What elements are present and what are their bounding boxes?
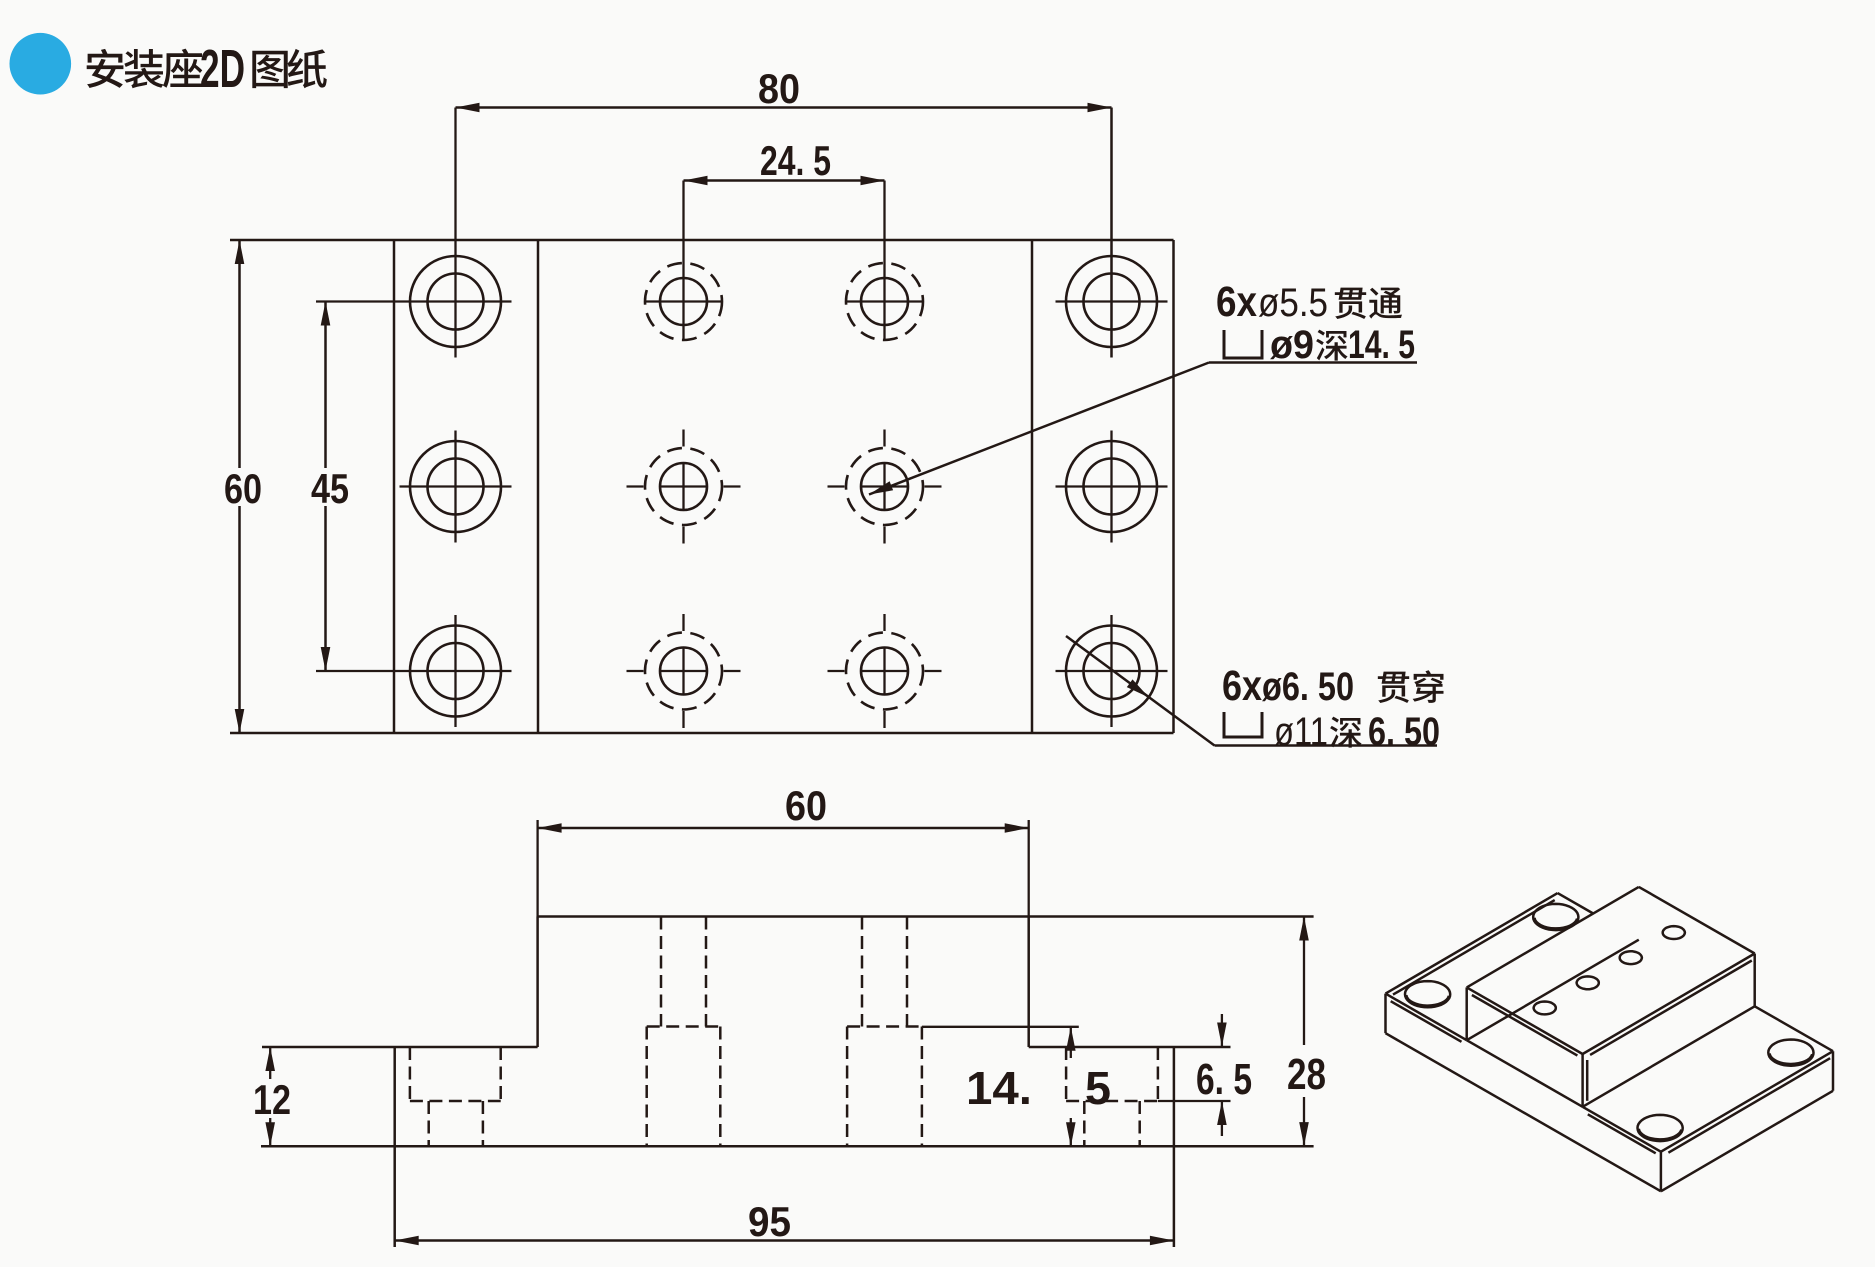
section hidden hole column 2 (ø5.5 / cb ø9) xyxy=(861,917,864,1027)
svg-text:ø5.5: ø5.5 xyxy=(1258,281,1328,325)
tapped/through hole M21 (6x ø5.5, cb ø9 dashed) xyxy=(861,278,908,325)
isometric view: corner counterbore holes xyxy=(1405,981,1450,1007)
isometric view: block top small holes xyxy=(1534,1002,1556,1015)
section right wing counterbore (ø11 deep 6.5 / ø6.5) xyxy=(1065,1047,1068,1101)
dimension 28 (total height) xyxy=(1303,917,1305,1046)
title bullet icon xyxy=(10,33,72,95)
svg-text:60: 60 xyxy=(224,465,262,512)
svg-text:6. 50: 6. 50 xyxy=(1368,710,1440,754)
isometric view: base top rim (with chamfer double lines) xyxy=(1386,994,1467,1041)
svg-text:5: 5 xyxy=(1085,1062,1111,1114)
svg-text:24. 5: 24. 5 xyxy=(760,137,831,184)
svg-text:80: 80 xyxy=(758,65,800,112)
section left wing counterbore (ø11 deep 6.5 / ø6.5) xyxy=(409,1047,412,1101)
svg-text:ø11: ø11 xyxy=(1274,710,1328,754)
dimension 95 (section base width) xyxy=(395,1239,1174,1242)
dimension 60 (section block width) xyxy=(536,820,538,917)
svg-text:12: 12 xyxy=(253,1076,291,1123)
callout 2 text line 2: ⌴ø11深6.50 xyxy=(1224,712,1262,737)
counterbore hole L3 (6x ø6.50, cb ø11) xyxy=(410,626,501,717)
svg-text:45: 45 xyxy=(311,465,349,512)
svg-text:6x: 6x xyxy=(1222,662,1262,710)
svg-text:14.: 14. xyxy=(966,1062,1032,1114)
counterbore hole R1 (6x ø6.50, cb ø11) xyxy=(1066,256,1157,347)
tapped/through hole M11 (6x ø5.5, cb ø9 dashed) xyxy=(660,278,707,325)
counterbore hole L1 (6x ø6.50, cb ø11) xyxy=(410,256,501,347)
dimension 14.5 (cb depth) xyxy=(922,1026,1079,1028)
svg-text:28: 28 xyxy=(1287,1050,1326,1099)
svg-text:60: 60 xyxy=(785,782,827,829)
top view divider lines xyxy=(393,240,396,733)
isometric view: block top edges xyxy=(1467,987,1583,1054)
svg-text:6x: 6x xyxy=(1216,278,1257,326)
dimension 24.5 xyxy=(684,179,885,182)
isometric view: base bottom edges xyxy=(1386,1033,1661,1191)
isometric view: block vertical edges xyxy=(1465,987,1468,1040)
leader callout 1 (6x ø5.5 through, cb ø9 deep 14.5) xyxy=(869,363,1209,495)
tapped/through hole M22 (6x ø5.5, cb ø9 dashed) xyxy=(861,463,908,510)
dimension 45 (hole rows) xyxy=(324,302,327,469)
section hidden hole column 1 (ø5.5 / cb ø9) xyxy=(660,917,663,1027)
svg-text:2D: 2D xyxy=(200,39,245,99)
dimension 6.5 (cb depth right) xyxy=(1158,1100,1231,1102)
svg-text:ø6. 50: ø6. 50 xyxy=(1262,665,1354,709)
counterbore hole R3 (6x ø6.50, cb ø11) xyxy=(1066,626,1157,717)
svg-text:14. 5: 14. 5 xyxy=(1348,323,1415,367)
tapped/through hole M12 (6x ø5.5, cb ø9 dashed) xyxy=(660,463,707,510)
top view plate outline xyxy=(230,239,1174,242)
isometric view: base vertical edges xyxy=(1384,994,1387,1034)
svg-text:ø9: ø9 xyxy=(1270,323,1314,367)
dimension 80 (top) xyxy=(456,106,1112,109)
dimension 60 (left, plate height) xyxy=(235,240,245,264)
counterbore hole L2 (6x ø6.50, cb ø11) xyxy=(410,441,501,532)
title text 安装座2D图纸 xyxy=(87,49,124,88)
tapped/through hole M23 (6x ø5.5, cb ø9 dashed) xyxy=(861,648,908,695)
callout 1 text line 2: ⌴ø9深14.5 xyxy=(1224,330,1262,358)
tapped/through hole M13 (6x ø5.5, cb ø9 dashed) xyxy=(660,648,707,695)
dimension 12 (base height) xyxy=(269,1047,271,1079)
counterbore hole R2 (6x ø6.50, cb ø11) xyxy=(1066,441,1157,532)
leader callout 2 (6x ø6.50 through, cb ø11 deep 6.50) xyxy=(1066,636,1215,746)
section view outline xyxy=(538,915,1314,918)
svg-text:6. 5: 6. 5 xyxy=(1196,1055,1252,1104)
isometric view: wing/block junction edges xyxy=(1467,940,1639,1040)
svg-text:95: 95 xyxy=(748,1198,791,1245)
